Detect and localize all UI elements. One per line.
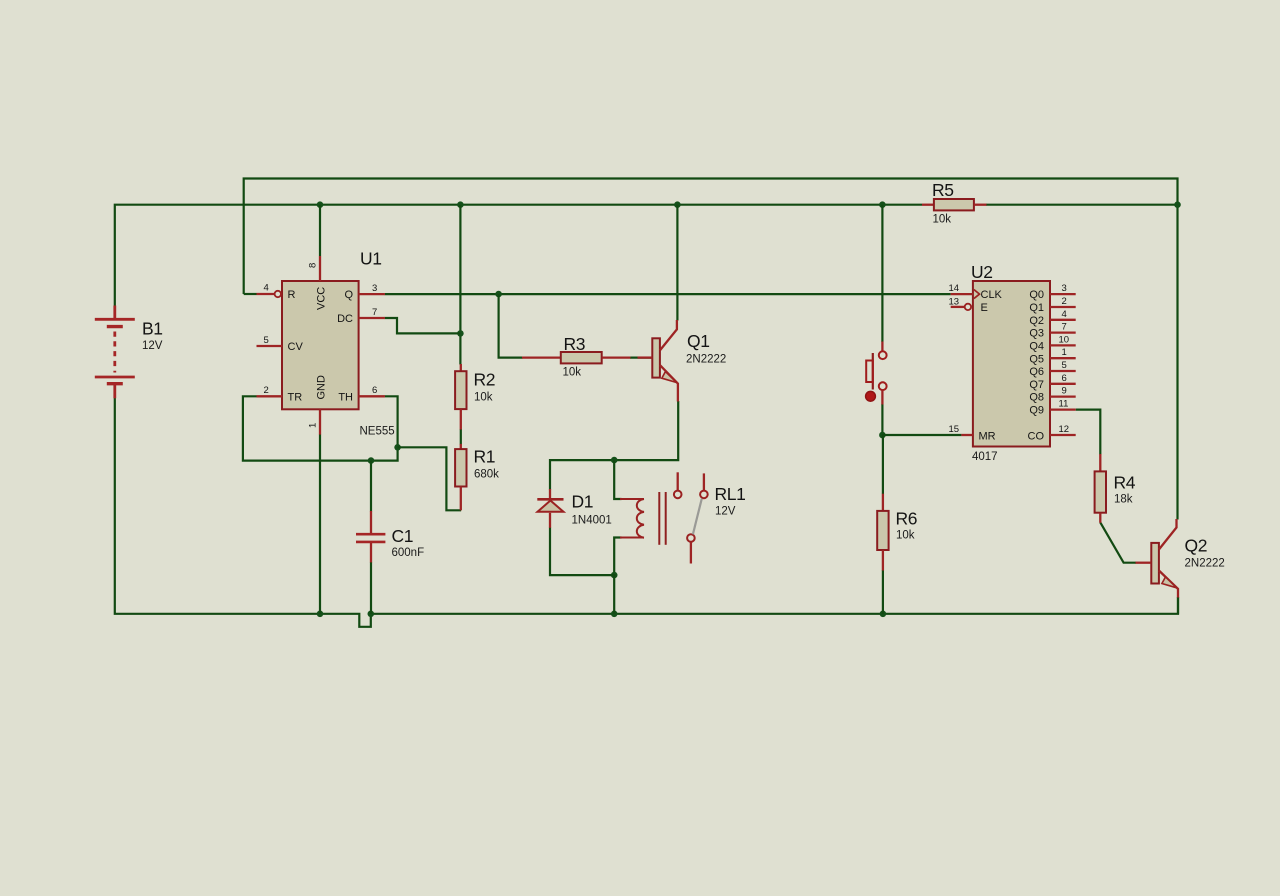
U2 pin 14 CLK stub [951, 290, 980, 299]
svg-text:NE555: NE555 [360, 426, 395, 438]
svg-text:U1: U1 [360, 249, 382, 269]
U1 pin 1 GND stub [319, 409, 321, 434]
wire TR loop to TH [243, 396, 398, 460]
svg-text:5: 5 [1062, 360, 1067, 371]
svg-text:R6: R6 [896, 509, 918, 529]
svg-text:VCC: VCC [316, 287, 328, 310]
node junction TR/TH wire-C1 [368, 457, 375, 464]
svg-text:C1: C1 [392, 526, 414, 546]
svg-text:Q5: Q5 [1029, 353, 1044, 365]
svg-text:R3: R3 [564, 334, 586, 354]
svg-text:Q3: Q3 [1029, 328, 1044, 340]
U1 pin 4 R stub [257, 291, 281, 297]
svg-text:10k: 10k [896, 530, 915, 542]
svg-text:7: 7 [372, 307, 377, 318]
U1 pin 6 TH stub [359, 395, 385, 397]
wire Q pin 3 to CLK [385, 293, 951, 295]
svg-text:DC: DC [337, 313, 353, 325]
op-amp U2 4017 box [973, 281, 1050, 447]
capacitor C1 [356, 511, 385, 562]
wire DC pin 7 to R2 branch [385, 318, 461, 333]
U2 output pin stubs Q0-Q9 and CO [1050, 294, 1076, 435]
node junction gnd rail-U1 GND [317, 611, 324, 618]
node junction rail2-button branch [879, 201, 886, 208]
resistor R6 [877, 494, 888, 571]
wire U2 Q9 to R4 [1076, 410, 1101, 455]
svg-text:600nF: 600nF [392, 547, 425, 559]
U1 pin 2 TR stub [257, 395, 283, 397]
svg-text:10k: 10k [474, 392, 493, 404]
wire U1 VCC pin 8 riser [319, 205, 321, 256]
relay RL1 core [659, 492, 665, 545]
wire R3 to Q1 base [630, 357, 652, 359]
U1 pin 5 CV stub [257, 345, 283, 347]
svg-text:6: 6 [372, 385, 377, 396]
svg-text:R: R [288, 289, 296, 301]
svg-text:6: 6 [1062, 373, 1067, 384]
node junction rail2-right riser [1174, 201, 1181, 208]
wire TH node hook to R1 bottom [398, 447, 462, 510]
svg-text:GND: GND [316, 375, 328, 400]
resistor R5 [922, 199, 987, 210]
relay RL1 contact terminals [674, 472, 708, 563]
wire MR node to U2 MR pin [882, 434, 961, 436]
svg-text:RL1: RL1 [715, 484, 746, 504]
svg-text:2: 2 [264, 385, 269, 396]
wire R6 bottom to ground rail [882, 570, 884, 614]
svg-text:CLK: CLK [981, 289, 1003, 301]
push button [866, 342, 887, 405]
U1 pin 7 DC stub [359, 317, 385, 319]
node junction D1 bottom-coil bottom [611, 572, 618, 579]
svg-text:CV: CV [288, 341, 304, 353]
svg-text:Q0: Q0 [1029, 289, 1044, 301]
svg-text:4: 4 [264, 283, 269, 294]
svg-text:Q9: Q9 [1029, 405, 1044, 417]
wire top rail 2 [115, 205, 1178, 306]
svg-text:R1: R1 [474, 447, 496, 467]
node junction gnd rail-relay branch [611, 611, 618, 618]
wire relay coil top [614, 460, 621, 499]
wire C1 top [370, 461, 372, 512]
svg-text:1: 1 [308, 423, 319, 428]
node junction gnd rail-R6 [880, 611, 887, 618]
transistor Q1 [638, 320, 678, 402]
U2 pin 15 MR stub [961, 434, 973, 436]
wire MR node down to R6 [882, 435, 884, 494]
svg-text:14: 14 [949, 283, 960, 294]
diode D1 [537, 489, 563, 528]
svg-text:2: 2 [1062, 296, 1067, 307]
svg-text:12V: 12V [715, 506, 736, 518]
svg-text:10k: 10k [933, 214, 952, 226]
resistor R1 [455, 444, 466, 510]
wire Q2 emitter to ground rail corner [1177, 597, 1179, 614]
svg-text:B1: B1 [142, 319, 163, 339]
wire relay coil bottom [614, 538, 621, 576]
svg-text:TR: TR [288, 391, 303, 403]
svg-text:5: 5 [264, 335, 269, 346]
svg-text:1N4001: 1N4001 [572, 515, 612, 527]
U2 pin 13 E stub [951, 304, 971, 310]
op-amp U1 NE555 box [282, 281, 359, 409]
wire rail2 to R2 and DC node [459, 205, 461, 365]
wire top rail VCC outer [244, 179, 1178, 520]
node junction Q-R3 branch [495, 291, 502, 298]
svg-text:2N2222: 2N2222 [686, 354, 726, 366]
wire U1 GND pin 1 to ground rail [319, 434, 321, 613]
svg-text:R5: R5 [932, 180, 954, 200]
wire R4 bottom to Q2 base [1100, 522, 1136, 562]
U2 output pin numbers [1059, 283, 1070, 435]
resistor R3 [522, 352, 631, 363]
node junction rail2-Q1 collector [674, 201, 681, 208]
svg-text:D1: D1 [572, 492, 594, 512]
node junction MR node [879, 432, 886, 439]
svg-text:CO: CO [1028, 431, 1045, 443]
wire Q node down to R3 [499, 294, 523, 358]
node junction rail2-VCC pin [317, 201, 324, 208]
svg-text:TH: TH [338, 391, 353, 403]
resistor R4 [1095, 454, 1106, 523]
svg-text:15: 15 [949, 424, 960, 435]
node junction gnd rail-C1 [368, 611, 375, 618]
svg-text:Q1: Q1 [1029, 302, 1044, 314]
node junction rail2-R2 branch [457, 201, 464, 208]
U1 pin 8 VCC stub [319, 256, 321, 281]
svg-text:12V: 12V [142, 340, 163, 352]
svg-text:Q6: Q6 [1029, 366, 1044, 378]
svg-text:U2: U2 [971, 262, 993, 282]
battery B1 [95, 306, 135, 399]
svg-text:11: 11 [1059, 399, 1069, 410]
wire battery bottom to ground rail [115, 398, 1178, 627]
node junction emitter wire-relay coil [611, 457, 618, 464]
svg-text:R2: R2 [474, 370, 496, 390]
svg-text:8: 8 [308, 263, 319, 268]
svg-text:13: 13 [949, 297, 960, 308]
node junction DC-R2 [457, 330, 464, 337]
svg-text:7: 7 [1062, 322, 1067, 333]
wire button bottom to MR node [881, 404, 883, 435]
svg-text:3: 3 [372, 283, 377, 294]
wire button branch from rail2 [881, 205, 883, 342]
svg-text:4017: 4017 [972, 451, 998, 463]
svg-text:Q7: Q7 [1029, 379, 1044, 391]
svg-text:4: 4 [1062, 309, 1067, 320]
wire C1 bottom [370, 562, 372, 614]
svg-text:2N2222: 2N2222 [1185, 558, 1225, 570]
svg-text:R4: R4 [1114, 473, 1136, 493]
relay RL1 coil [620, 499, 644, 538]
transistor Q2 [1136, 519, 1179, 598]
svg-text:E: E [981, 302, 988, 314]
resistor R2 [455, 364, 466, 430]
U2 pin names Q0-Q9 [1029, 289, 1044, 417]
svg-text:MR: MR [979, 431, 996, 443]
svg-text:Q2: Q2 [1185, 536, 1208, 556]
node junction TH riser-R1 hook [394, 444, 401, 451]
wire D1 bottom to coil node [550, 528, 614, 614]
svg-text:Q4: Q4 [1029, 341, 1044, 353]
svg-text:10k: 10k [563, 367, 582, 379]
svg-text:3: 3 [1062, 283, 1067, 294]
svg-text:Q2: Q2 [1029, 315, 1044, 327]
wire R2-R1 link [460, 429, 462, 444]
svg-text:Q8: Q8 [1029, 392, 1044, 404]
svg-text:1: 1 [1062, 347, 1067, 358]
svg-text:Q1: Q1 [687, 331, 710, 351]
svg-text:9: 9 [1062, 386, 1067, 397]
svg-text:10: 10 [1059, 334, 1070, 345]
svg-text:Q: Q [344, 289, 353, 301]
U1 pin 3 Q stub [359, 293, 385, 295]
wire U1 R pin from rail1 [244, 293, 257, 295]
svg-text:680k: 680k [474, 469, 499, 481]
relay RL1 switch lever [693, 499, 702, 535]
svg-text:18k: 18k [1114, 494, 1133, 506]
wire Q1 collector riser [676, 205, 678, 321]
wire Q1 emitter down [550, 401, 678, 490]
svg-text:12: 12 [1059, 424, 1070, 435]
